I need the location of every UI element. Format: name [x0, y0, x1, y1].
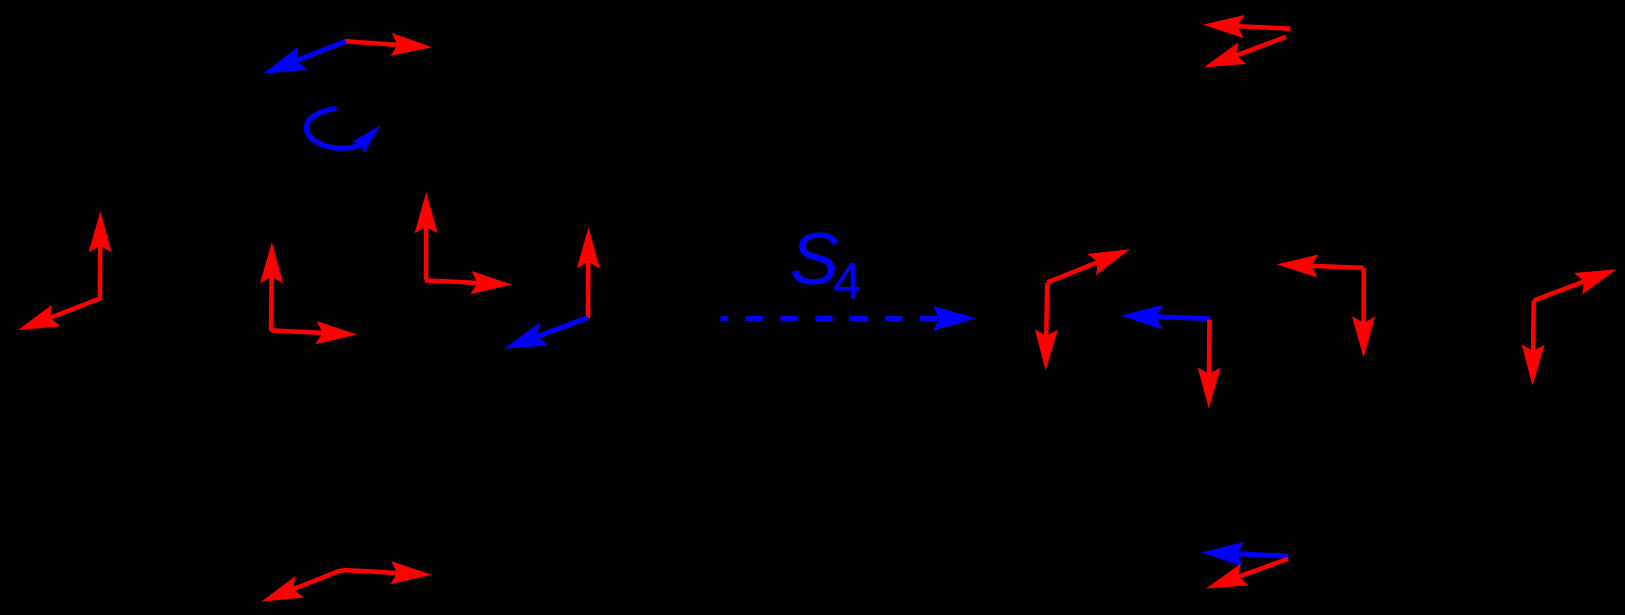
left molecule: bottom bent red arrow left head	[261, 576, 303, 602]
svg-text:4: 4	[833, 253, 861, 310]
right molecule: H3' red arrow down	[1531, 301, 1536, 353]
S4 dashed blue arrow head	[934, 306, 977, 330]
svg-text:S: S	[790, 217, 839, 300]
left molecule: H1 red arrow down-left	[49, 299, 100, 319]
left molecule: bottom bent red double arrow stem	[292, 570, 399, 590]
right molecule: H3' red arrow up-right	[1534, 281, 1586, 301]
right molecule: center red arrow down	[1207, 320, 1212, 376]
left molecule: top C atom red arrow pointing right	[345, 41, 399, 45]
right molecule: bottom blue arrow left	[1235, 554, 1288, 556]
left molecule: bottom bent red arrow right head	[390, 561, 432, 584]
left molecule: H4 blue arrow down-left	[536, 318, 587, 337]
right molecule: H2' red arrow left	[1310, 266, 1364, 268]
left molecule: curved blue rotation arrow head	[352, 125, 380, 153]
right molecule: center blue arrow left	[1155, 317, 1210, 319]
left molecule: curved blue rotation arrow (S4 axis rotation) arc	[307, 109, 362, 149]
left molecule: top C atom blue arrow pointing down-left	[295, 42, 346, 62]
left molecule: H1 red arrow up	[98, 244, 103, 300]
left molecule: H2 red arrow up	[269, 275, 274, 331]
left molecule: H3 red arrow up	[424, 225, 429, 279]
left molecule: H2 red arrow right	[271, 330, 324, 333]
right molecule: H1' red arrow up-right	[1047, 262, 1099, 283]
left molecule: H4 red arrow up	[586, 260, 591, 317]
S4 dashed blue arrow stem	[721, 316, 942, 321]
right molecule: H2' red arrow down	[1361, 268, 1366, 325]
right molecule: bottom red arrow down-left	[1237, 559, 1288, 578]
right molecule: top atom red arrow down-left	[1235, 37, 1286, 56]
right molecule: top atom red arrow left	[1236, 26, 1291, 29]
left molecule: H3 red arrow right	[425, 280, 479, 283]
right molecule: H1' red arrow down	[1046, 282, 1047, 337]
